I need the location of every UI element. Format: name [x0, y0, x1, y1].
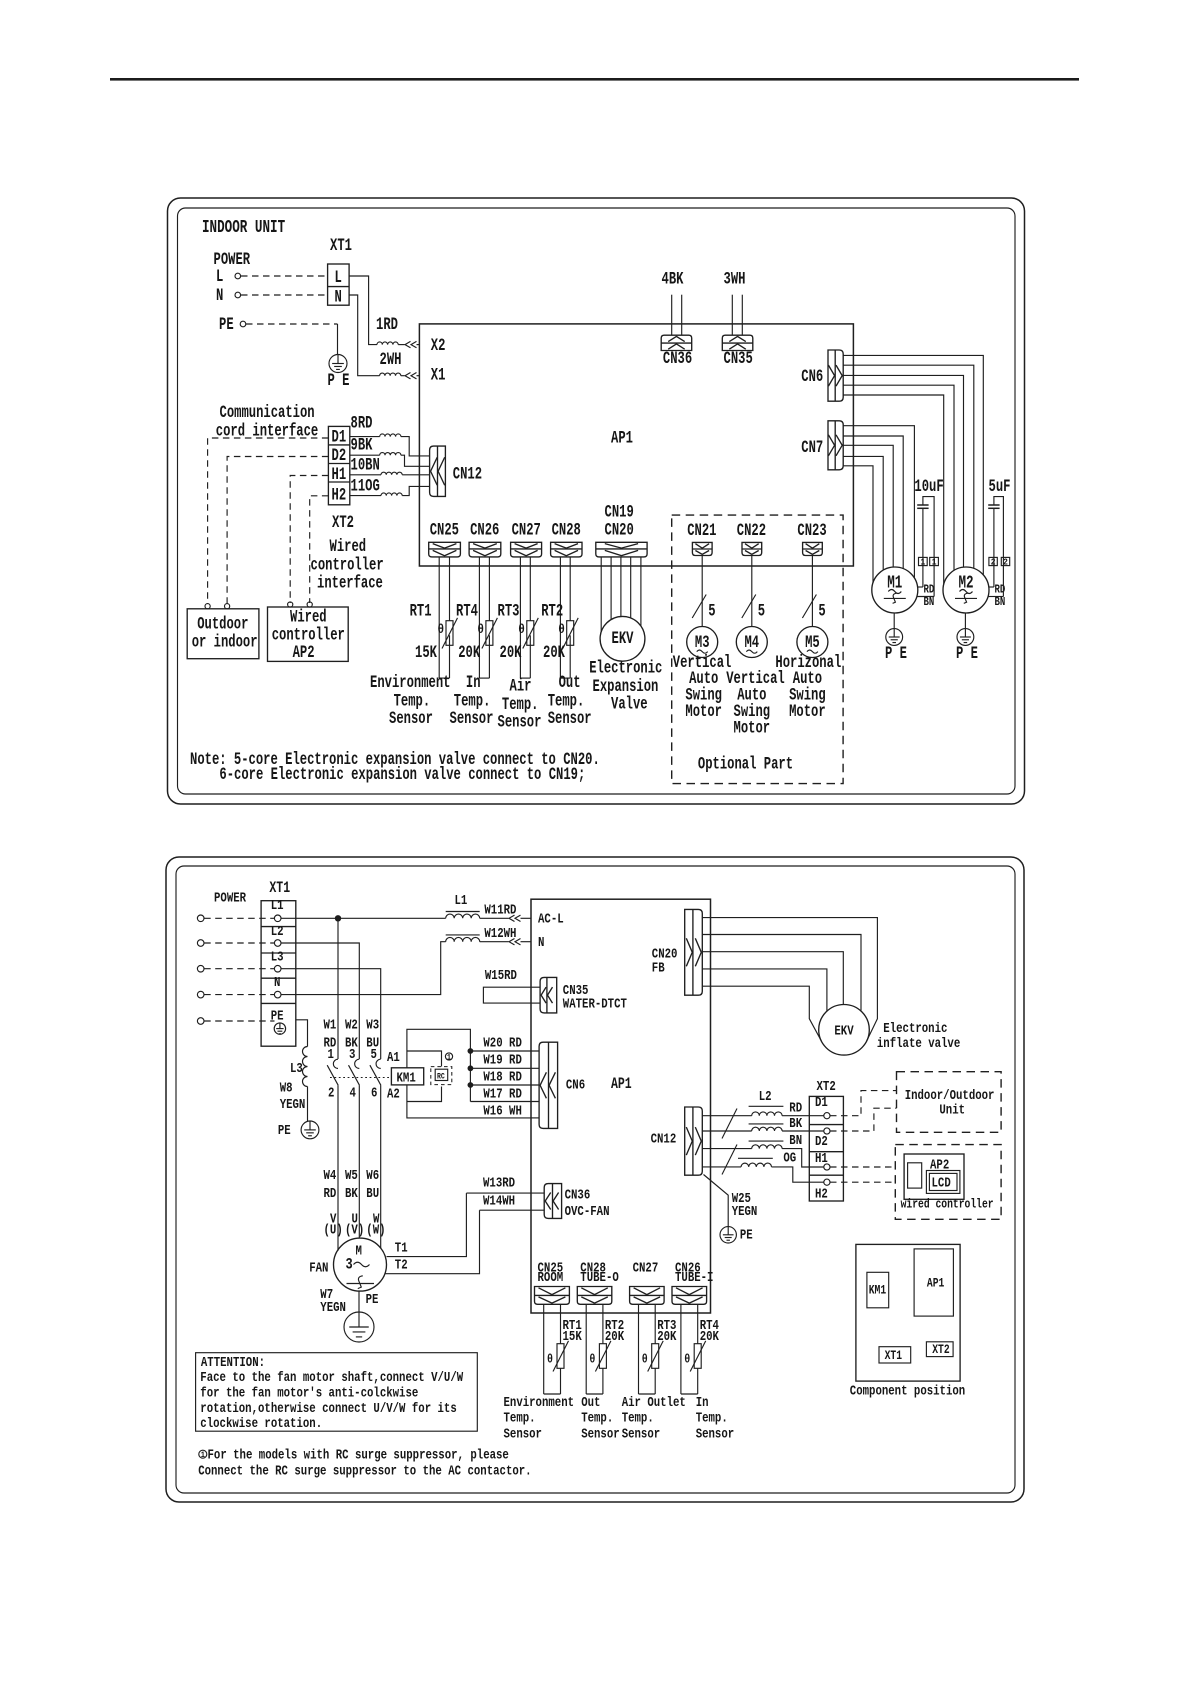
wire CN7 pin3 to M1 [843, 445, 893, 567]
outdoor unit outer frame [166, 857, 1024, 1502]
svg-text:Component position: Component position [850, 1383, 965, 1399]
connector CN36 bottom [544, 1184, 561, 1219]
contact KM1 pole 2 [355, 1059, 360, 1068]
note RC surge suppressor [199, 1450, 207, 1458]
wire dashed D1 to indoor-outdoor [830, 1091, 897, 1116]
box component position [856, 1244, 960, 1381]
wire CN20 pin3 to EKV [620, 557, 622, 617]
svg-text:T2: T2 [395, 1257, 408, 1273]
svg-text:PE: PE [366, 1292, 379, 1308]
svg-text:W15RD: W15RD [485, 968, 517, 984]
svg-text:4: 4 [350, 1085, 357, 1101]
wire A2 to W16 [407, 1085, 531, 1118]
wire CN27 bottom bar [520, 677, 530, 679]
svg-text:1: 1 [921, 557, 926, 568]
wire CN25 left lead [438, 557, 440, 678]
svg-text:5: 5 [708, 600, 715, 621]
terminal circle [274, 940, 281, 947]
ground M2 PE [957, 629, 974, 646]
svg-text:θ: θ [518, 622, 525, 637]
svg-text:1: 1 [447, 1054, 451, 1063]
connector CN27 [511, 542, 542, 557]
svg-text:rotation,otherwise connect U/V: rotation,otherwise connect U/V/W for its [200, 1401, 456, 1417]
wire CN28 left lead [559, 557, 561, 678]
svg-text:X2: X2 [431, 335, 446, 356]
wire CN20FB pin1 [702, 918, 877, 1041]
marker 1 right [930, 557, 939, 565]
wire CN12 pin3 BN [702, 1148, 751, 1150]
slash 5-core mark M4 [742, 595, 756, 619]
svg-text:1: 1 [201, 1452, 206, 1461]
wire N to X1 [349, 295, 380, 376]
svg-text:CN12: CN12 [651, 1131, 677, 1147]
svg-text:BN: BN [789, 1133, 802, 1149]
svg-text:3: 3 [349, 1047, 355, 1063]
svg-text:Optional Part: Optional Part [698, 753, 793, 774]
svg-text:W11RD: W11RD [484, 902, 516, 918]
wire CN27 right lead [654, 1304, 656, 1343]
svg-text:6: 6 [371, 1085, 377, 1101]
wire L1 to AC-L [281, 917, 446, 919]
connector CN26 [469, 542, 501, 557]
svg-text:W14WH: W14WH [483, 1193, 515, 1209]
part KM1 position [867, 1272, 889, 1308]
wire PE cell to L3 [296, 1020, 308, 1047]
svg-text:Sensor: Sensor [622, 1426, 660, 1442]
svg-text:TUBE-I: TUBE-I [675, 1270, 713, 1286]
svg-text:4BK: 4BK [662, 268, 685, 289]
svg-text:CN6: CN6 [801, 366, 823, 387]
svg-text:XT2: XT2 [817, 1079, 836, 1095]
svg-text:wired controller: wired controller [901, 1199, 994, 1212]
box wired controller dashed [895, 1145, 1001, 1220]
svg-text:Temp.: Temp. [581, 1410, 613, 1426]
svg-text:X1: X1 [431, 364, 446, 385]
wire phase 1 lower [337, 1085, 339, 1251]
wire A1 loop [407, 1029, 471, 1101]
svg-text:15K: 15K [415, 642, 438, 663]
svg-text:W17 RD: W17 RD [483, 1086, 521, 1102]
power input circle 3 [197, 965, 204, 972]
svg-text:θ: θ [642, 1354, 648, 1367]
svg-text:Sensor: Sensor [504, 1426, 542, 1442]
svg-text:CN6: CN6 [566, 1077, 585, 1093]
wire CN20FB pin3 [702, 952, 843, 1005]
svg-text:interface: interface [317, 572, 383, 593]
wire CN26 right lead [488, 557, 490, 621]
pair slash lower [722, 1145, 737, 1175]
svg-text:OG: OG [783, 1150, 796, 1166]
wire W18 [470, 1084, 539, 1086]
svg-text:L3: L3 [290, 1061, 303, 1077]
svg-text:INDOOR UNIT: INDOOR UNIT [202, 217, 285, 238]
wire dashed power 5 [204, 1020, 274, 1022]
svg-text:θ: θ [684, 1354, 690, 1367]
slash 5-core mark M5 [802, 595, 816, 619]
thermistor RT1 [446, 621, 453, 646]
svg-text:W1: W1 [324, 1017, 337, 1033]
contactor coil KM1 [391, 1068, 423, 1085]
svg-text:CN12: CN12 [453, 463, 482, 484]
wire CN26 left lead [478, 557, 480, 678]
wire CN26 right lead [697, 1304, 699, 1343]
ground PE symbol [329, 355, 347, 373]
svg-text:WATER-DTCT: WATER-DTCT [563, 996, 628, 1012]
svg-text:3: 3 [346, 1256, 353, 1274]
svg-text:CN23: CN23 [797, 520, 826, 541]
box Wired controller AP2 [268, 607, 349, 661]
page top rule [110, 78, 1079, 81]
wire CN22 to M4 [751, 556, 753, 627]
svg-text:3WH: 3WH [724, 268, 746, 289]
svg-text:PE: PE [278, 1123, 291, 1139]
svg-text:RC: RC [437, 1073, 445, 1082]
motor M1 [872, 567, 918, 613]
svg-text:5: 5 [371, 1047, 377, 1063]
svg-text:L3: L3 [271, 949, 284, 965]
suppressor RC branch [407, 1051, 442, 1067]
svg-text:20K: 20K [700, 1329, 720, 1345]
svg-text:L1: L1 [271, 898, 284, 914]
wire CN28 right lead [569, 557, 571, 621]
svg-text:PE: PE [740, 1227, 753, 1243]
wire CN20 pin1 to EKV [600, 557, 602, 632]
wire CN20 pin5 to EKV [640, 557, 642, 626]
wire CN7 pin1 to M1 [843, 426, 914, 578]
svg-text:Temp.: Temp. [504, 1410, 536, 1426]
svg-text:Sensor: Sensor [581, 1426, 619, 1442]
svg-text:N: N [335, 286, 342, 307]
terminal circle [274, 991, 281, 998]
cable W15RD [483, 987, 531, 1003]
svg-text:Sensor: Sensor [548, 708, 592, 729]
svg-text:For the models with RC surge s: For the models with RC surge suppressor,… [208, 1447, 509, 1463]
wire CN20FB pin4 [702, 969, 827, 1011]
svg-text:M4: M4 [744, 632, 759, 653]
svg-text:20K: 20K [605, 1329, 625, 1345]
wire dashed D2 to outdoor box [227, 457, 328, 605]
wire M1 RD lead [918, 586, 923, 588]
svg-text:L: L [335, 267, 342, 288]
svg-text:CN7: CN7 [801, 437, 823, 458]
svg-text:ATTENTION:: ATTENTION: [201, 1355, 265, 1371]
connector CN12 bottom [685, 1107, 703, 1175]
svg-text:YEGN: YEGN [320, 1300, 346, 1316]
svg-text:D1: D1 [815, 1095, 828, 1111]
svg-text:H1: H1 [332, 464, 347, 485]
indoor unit inner frame [178, 208, 1016, 794]
svg-text:XT1: XT1 [885, 1350, 903, 1363]
wire phase 2 upper [281, 943, 359, 1059]
wire dashed D1 to outdoor box [208, 438, 329, 604]
svg-text:RD: RD [324, 1186, 337, 1202]
display LCD [926, 1171, 960, 1194]
wire CN7 pin2 to M1 [843, 436, 903, 569]
wire D2 coil 9BK to CN12 pin2 [350, 454, 380, 456]
svg-text:RT1: RT1 [410, 601, 432, 622]
svg-text:BN: BN [924, 596, 935, 610]
svg-text:11OG: 11OG [351, 475, 380, 496]
terminal block XT2 [328, 426, 349, 504]
svg-text:W2: W2 [345, 1017, 358, 1033]
svg-text:θ: θ [477, 622, 484, 637]
wire L to X2 [349, 276, 377, 345]
linkage dotted KM1 [330, 1077, 391, 1079]
svg-text:Air Outlet: Air Outlet [622, 1395, 686, 1411]
svg-text:W5: W5 [345, 1168, 358, 1184]
svg-text:KM1: KM1 [869, 1285, 887, 1298]
terminal PE earth symbol [274, 1023, 285, 1034]
wire dashed D2 to indoor-outdoor [830, 1108, 897, 1131]
svg-text:RT2: RT2 [541, 601, 563, 622]
svg-text:In: In [696, 1395, 709, 1411]
wire PE drop [337, 324, 339, 354]
wire CN26 bottom bar [479, 677, 489, 679]
svg-text:EKV: EKV [612, 628, 635, 649]
svg-text:W16 WH: W16 WH [483, 1103, 521, 1119]
svg-text:Sensor: Sensor [498, 711, 542, 732]
wire dashed N to XT1 [241, 294, 327, 296]
marker 2 right [1001, 557, 1009, 565]
svg-text:20K: 20K [543, 642, 566, 663]
connector CN7 [828, 421, 843, 470]
svg-text:TUBE-O: TUBE-O [580, 1270, 618, 1286]
svg-text:T1: T1 [395, 1240, 408, 1256]
svg-text:Indoor/Outdoor: Indoor/Outdoor [905, 1088, 995, 1104]
box Outdoor or indoor [187, 609, 259, 659]
wire dashed H2 to AP2 [830, 1181, 895, 1183]
svg-text:W19 RD: W19 RD [483, 1052, 521, 1068]
connector CN35 [722, 335, 753, 350]
wire CN25 right lead [449, 557, 451, 621]
wire CN21 to M3 [701, 556, 703, 627]
wire phase 3 lower [380, 1085, 382, 1248]
wire W19 [470, 1067, 539, 1069]
wire W17 [470, 1101, 539, 1103]
svg-text:6-core Electronic expansion va: 6-core Electronic expansion valve connec… [219, 764, 585, 785]
motor M4 [736, 627, 767, 658]
wire W13RD [466, 1192, 544, 1194]
part AP1 position [914, 1249, 953, 1316]
wire CN26 bottom bar [681, 1393, 698, 1395]
wire CN28 bottom bar [586, 1393, 603, 1395]
thermistor RT1 bottom [557, 1344, 564, 1369]
svg-text:W12WH: W12WH [484, 926, 516, 942]
part XT2 position [926, 1342, 953, 1357]
motor M3 [687, 627, 718, 658]
svg-text:W6: W6 [366, 1168, 379, 1184]
svg-text:AC-L: AC-L [538, 911, 564, 927]
box Optional Part dashed [672, 515, 843, 784]
wire dashed H2 to wired controller [310, 496, 329, 603]
wire L3 to ground [307, 1087, 309, 1122]
svg-text:CN27: CN27 [633, 1260, 659, 1276]
terminal circle XT2 [824, 1113, 830, 1119]
wire CN28 right lead [602, 1304, 604, 1343]
svg-text:L2: L2 [271, 924, 284, 940]
svg-text:KM1: KM1 [397, 1070, 416, 1086]
thermistor RT4 bottom [694, 1344, 701, 1369]
svg-text:CN26: CN26 [470, 520, 499, 541]
motor FAN [334, 1238, 387, 1291]
svg-text:Environment: Environment [504, 1395, 575, 1411]
connector CN20 FB [685, 909, 703, 995]
wire phase 2 lower [358, 1085, 360, 1238]
svg-text:or indoor: or indoor [192, 631, 258, 652]
svg-text:CN25: CN25 [430, 520, 459, 541]
svg-text:L: L [216, 266, 223, 287]
svg-text:20K: 20K [458, 642, 481, 663]
svg-text:XT2: XT2 [332, 512, 354, 533]
wire dashed power 2 [204, 942, 274, 944]
power input circle 5 [197, 1018, 204, 1025]
connector CN12 [430, 446, 446, 496]
indoor unit outer frame [168, 198, 1025, 804]
svg-text:H2: H2 [815, 1186, 828, 1202]
slash 5-core mark M3 [692, 595, 706, 619]
svg-text:10uF: 10uF [914, 476, 943, 497]
junction dots A1 bus [468, 1048, 474, 1054]
wire phase 1 upper [337, 918, 339, 1059]
svg-text:inflate valve: inflate valve [877, 1036, 960, 1052]
connector CN36 [661, 335, 692, 350]
terminal circle [274, 915, 281, 922]
svg-text:10BN: 10BN [351, 454, 380, 475]
svg-text:FB: FB [652, 960, 665, 976]
wire FAN to ground [358, 1291, 360, 1312]
svg-text:Temp.: Temp. [696, 1410, 728, 1426]
svg-text:A2: A2 [387, 1086, 400, 1102]
terminal circle XT2 [824, 1179, 830, 1185]
svg-text:5uF: 5uF [989, 476, 1011, 497]
svg-text:CN22: CN22 [737, 520, 766, 541]
wire phase 3 upper [281, 969, 381, 1059]
svg-text:θ: θ [558, 622, 565, 637]
connector CN35 bottom [540, 977, 557, 1013]
wire dashed L to XT1 [241, 275, 327, 277]
box ATTENTION [196, 1353, 478, 1432]
wire CN12 pin1 RD [702, 1115, 751, 1117]
svg-text:W4: W4 [324, 1168, 337, 1184]
power input circle 1 [197, 915, 204, 922]
marker 1 left [919, 557, 928, 565]
ground M1 PE [886, 629, 903, 646]
svg-text:AP2: AP2 [293, 642, 315, 663]
svg-text:5: 5 [758, 600, 765, 621]
terminal circle XT2 [824, 1164, 830, 1170]
wire T2 [385, 1210, 479, 1274]
valve EKV inflate [819, 1005, 870, 1056]
svg-text:Temp.: Temp. [622, 1410, 654, 1426]
svg-text:YEGN: YEGN [280, 1097, 306, 1113]
svg-text:POWER: POWER [214, 890, 247, 906]
symbol circled 1 [445, 1053, 452, 1060]
svg-text:PE: PE [271, 1008, 284, 1024]
svg-text:1: 1 [328, 1047, 334, 1063]
wire CN6 pin2 to M2 [843, 365, 974, 568]
svg-text:CN27: CN27 [512, 520, 541, 541]
svg-text:M5: M5 [805, 632, 820, 653]
wire CN6 pin3 to M2 [843, 375, 963, 567]
svg-text:θ: θ [589, 1354, 595, 1367]
svg-text:W20 RD: W20 RD [483, 1035, 521, 1051]
pcb AP1 box [419, 324, 853, 566]
svg-text:PE: PE [219, 314, 234, 335]
svg-text:RD: RD [789, 1100, 802, 1116]
svg-text:LCD: LCD [932, 1175, 951, 1191]
wire dashed H1 to wired controller [290, 476, 328, 604]
motor M2 [943, 567, 989, 613]
wire CN20FB pin5 [702, 986, 821, 1041]
wire CN20 pin4 to EKV [630, 557, 632, 618]
svg-text:AP1: AP1 [927, 1278, 945, 1291]
svg-text:CN21: CN21 [687, 520, 716, 541]
pcb AP1 box bottom [531, 899, 711, 1313]
svg-text:L1: L1 [455, 893, 468, 909]
wire CN20 pin2 to EKV [610, 557, 612, 620]
svg-text:CN35: CN35 [724, 348, 753, 369]
terminal circle XT2 [824, 1128, 830, 1134]
svg-text:(U): (U) [324, 1222, 343, 1238]
connector CN6 bottom [539, 1042, 558, 1128]
contact KM1 pole 3 [376, 1059, 381, 1068]
svg-text:Sensor: Sensor [450, 708, 494, 729]
svg-text:θ: θ [547, 1354, 553, 1367]
wire CN25 bottom bar [439, 677, 449, 679]
svg-text:EKV: EKV [834, 1023, 854, 1039]
wire N to AP1 N [281, 942, 446, 995]
svg-text:XT1: XT1 [269, 881, 290, 898]
svg-text:P E: P E [328, 370, 350, 391]
svg-text:BK: BK [345, 1186, 358, 1202]
wire M1 to ground [893, 613, 895, 629]
wire W25 ground [704, 1175, 729, 1227]
svg-text:W13RD: W13RD [483, 1175, 515, 1191]
svg-text:ROOM: ROOM [538, 1270, 564, 1286]
svg-text:for the fan motor's anti-colck: for the fan motor's anti-colckwise [200, 1385, 418, 1401]
svg-text:BK: BK [789, 1116, 802, 1132]
wire CN23 to M5 [811, 556, 813, 627]
svg-text:Unit: Unit [939, 1102, 965, 1118]
svg-text:M: M [356, 1243, 362, 1259]
wire CN25 bottom bar [544, 1393, 561, 1395]
wire W20 [470, 1050, 539, 1052]
svg-text:CN28: CN28 [552, 520, 581, 541]
svg-text:2WH: 2WH [380, 349, 402, 370]
svg-text:Connect the RC surge suppresso: Connect the RC surge suppressor to the A… [198, 1463, 531, 1479]
wire CN25 left lead [543, 1304, 545, 1394]
svg-text:YEGN: YEGN [732, 1204, 758, 1220]
svg-text:θ: θ [438, 622, 445, 637]
terminal circle [274, 965, 281, 972]
wire dashed power 1 [204, 917, 274, 919]
wire T1 [387, 1193, 467, 1257]
wire CN12 pin2 BK [702, 1130, 751, 1132]
pair slash upper [722, 1109, 737, 1139]
wire CN6 pin4 to M2 [843, 385, 954, 570]
wire dashed H1 to AP2 [830, 1166, 895, 1168]
wire CN27 bottom bar [639, 1393, 656, 1395]
wire CN27 left lead [638, 1304, 640, 1394]
part XT1 position [879, 1347, 911, 1363]
svg-text:FAN: FAN [309, 1260, 328, 1276]
svg-text:RT4: RT4 [456, 601, 478, 622]
thermistor RT3 bottom [652, 1344, 659, 1369]
svg-text:1RD: 1RD [376, 314, 398, 335]
wire W14WH [480, 1209, 545, 1211]
motor M5 [797, 627, 828, 658]
wire CN27 left lead [519, 557, 521, 678]
